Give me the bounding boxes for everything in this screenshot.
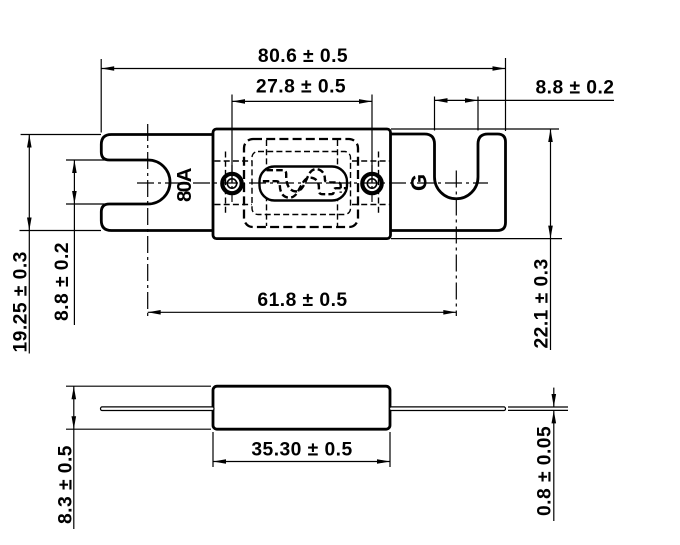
bolt centerline dashes (231, 165, 233, 202)
svg-text:61.8 ± 0.5: 61.8 ± 0.5 (257, 290, 347, 311)
svg-text:8.8 ± 0.2: 8.8 ± 0.2 (52, 242, 73, 321)
dim 19.25 extension lines (21, 134, 101, 136)
svg-text:80A: 80A (173, 167, 196, 202)
svg-text:8.8 ± 0.2: 8.8 ± 0.2 (536, 78, 615, 99)
plate edge dashed verticals (266, 140, 268, 226)
dim 27.8 extension lines (231, 95, 233, 184)
left slot centerline vertical (147, 124, 149, 316)
bolt tab dashed edges (225, 152, 227, 215)
dim 80.6 line (101, 68, 505, 70)
dim 35.30 line (213, 461, 390, 463)
element window (260, 167, 348, 201)
dim 8.8 left line with leader (73, 160, 75, 325)
dim 8.8 top extension lines (434, 97, 436, 131)
dim 0.8 extension lines (508, 406, 568, 408)
left fork terminal (101, 135, 214, 231)
svg-text:80.6 ± 0.5: 80.6 ± 0.5 (258, 46, 348, 67)
svg-text:19.25 ± 0.3: 19.25 ± 0.3 (11, 251, 32, 352)
svg-text:0.8 ± 0.05: 0.8 ± 0.05 (535, 426, 556, 516)
right slot centerline vertical (455, 171, 457, 317)
dim 8.8 left extension lines (66, 159, 115, 161)
fuse element upper strand (267, 169, 341, 193)
dim 80.6 extension lines (100, 59, 102, 133)
bolt left (222, 174, 241, 193)
dim 8.8 top line with leader (435, 99, 615, 101)
svg-text:22.1 ± 0.3: 22.1 ± 0.3 (532, 258, 553, 348)
side view body (213, 386, 390, 429)
inner dashed outline (252, 152, 351, 215)
svg-text:35.30 ± 0.5: 35.30 ± 0.5 (251, 440, 352, 461)
cover dashed outline (244, 139, 358, 227)
dim 8.3 line with leader (73, 386, 75, 529)
dim 27.8 line (232, 100, 372, 102)
dim 22.1 line with leader (550, 129, 552, 350)
fuse element lower strand (263, 178, 347, 198)
right slotted terminal (390, 134, 506, 231)
dim 35.30 extension lines (212, 432, 214, 467)
dim 61.8 line (148, 311, 457, 313)
horizontal centerline (137, 182, 488, 184)
side view left blade (101, 407, 215, 411)
dim 19.25 line with leader (28, 135, 30, 354)
dim 22.1 extension lines (391, 128, 559, 130)
dim 0.8 upper arrow (553, 388, 555, 407)
dim 0.8 lower arrow with leader (553, 410, 555, 521)
bolt right (362, 174, 381, 193)
dim 8.3 extension lines (66, 385, 211, 387)
svg-text:8.3 ± 0.5: 8.3 ± 0.5 (56, 445, 77, 524)
side view right blade (390, 407, 506, 411)
svg-text:G: G (407, 174, 432, 191)
fuse body (213, 129, 391, 239)
svg-text:27.8 ± 0.5: 27.8 ± 0.5 (256, 77, 346, 98)
